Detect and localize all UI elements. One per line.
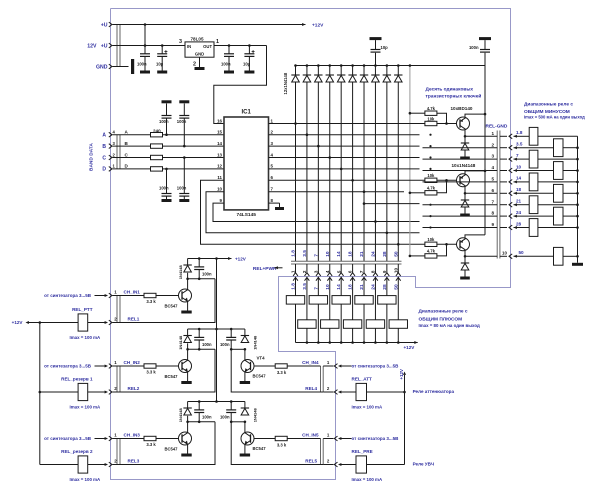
svg-text:4: 4: [325, 270, 330, 273]
svg-text:REL5: REL5: [305, 458, 317, 463]
svg-text:10: 10: [217, 187, 222, 192]
svg-text:14: 14: [217, 141, 222, 146]
svg-text:REL_PRE: REL_PRE: [352, 449, 373, 454]
svg-text:REL_ATT: REL_ATT: [352, 377, 373, 382]
svg-text:REL_PTT: REL_PTT: [72, 307, 93, 312]
svg-text:100n: 100n: [137, 62, 147, 67]
svg-text:12x1N4148: 12x1N4148: [283, 72, 288, 94]
svg-text:10xBD140: 10xBD140: [451, 106, 473, 111]
svg-text:100n: 100n: [469, 45, 479, 50]
svg-text:3: 3: [179, 39, 182, 45]
svg-text:240: 240: [153, 128, 161, 133]
svg-text:78L05: 78L05: [191, 37, 204, 42]
svg-text:13: 13: [217, 152, 222, 157]
svg-text:от синтезатора 3...5В: от синтезатора 3...5В: [352, 436, 400, 441]
svg-text:+U: +U: [101, 43, 108, 49]
svg-text:100n: 100n: [177, 186, 187, 191]
svg-text:28: 28: [382, 251, 388, 257]
svg-text:10k: 10k: [427, 116, 435, 121]
svg-text:18: 18: [348, 251, 354, 257]
svg-text:10: 10: [502, 251, 507, 256]
svg-text:CH_IN4: CH_IN4: [302, 360, 319, 365]
svg-text:1N4148: 1N4148: [253, 335, 258, 350]
svg-text:3.5: 3.5: [302, 250, 308, 257]
svg-text:14: 14: [516, 176, 522, 181]
svg-text:8: 8: [491, 211, 494, 216]
svg-text:15: 15: [217, 130, 222, 135]
svg-text:10k: 10k: [427, 173, 435, 178]
svg-text:Диапазонные реле с: Диапазонные реле с: [419, 309, 468, 315]
svg-text:Десять одинаковых: Десять одинаковых: [426, 87, 474, 93]
svg-text:Реле аттенюатора: Реле аттенюатора: [413, 389, 455, 394]
svg-text:Imax = 100 mA: Imax = 100 mA: [352, 477, 383, 482]
svg-text:7: 7: [491, 199, 494, 204]
svg-text:6: 6: [491, 188, 494, 193]
svg-text:GND: GND: [195, 52, 204, 57]
svg-text:от синтезатора 3...5В: от синтезатора 3...5В: [44, 436, 92, 441]
svg-text:11: 11: [217, 175, 222, 180]
svg-text:14: 14: [336, 251, 342, 257]
svg-text:3.3 k: 3.3 k: [146, 299, 156, 304]
svg-text:3: 3: [313, 270, 318, 273]
svg-text:Imax = 500 мА на один выход: Imax = 500 мА на один выход: [524, 115, 585, 120]
svg-text:74LS145: 74LS145: [236, 212, 256, 218]
svg-text:3.3 k: 3.3 k: [146, 442, 156, 447]
svg-text:5: 5: [336, 270, 341, 273]
svg-text:Imax = 100 mA: Imax = 100 mA: [352, 404, 383, 409]
svg-text:BC547: BC547: [253, 446, 267, 451]
svg-text:10x1N4148: 10x1N4148: [452, 163, 476, 168]
svg-text:7: 7: [516, 153, 519, 158]
svg-text:REL4: REL4: [305, 386, 317, 391]
svg-text:+U: +U: [101, 22, 108, 28]
svg-text:5: 5: [491, 177, 494, 182]
svg-text:7: 7: [359, 270, 364, 273]
svg-text:4.7k: 4.7k: [427, 186, 436, 191]
svg-text:10p: 10p: [381, 45, 389, 50]
svg-text:4: 4: [491, 165, 494, 170]
svg-text:IN: IN: [187, 44, 191, 49]
svg-text:10µ: 10µ: [243, 62, 251, 67]
svg-text:100n: 100n: [177, 119, 187, 124]
svg-text:50: 50: [393, 251, 399, 257]
svg-text:1N4148: 1N4148: [178, 335, 183, 350]
svg-text:10µ: 10µ: [156, 62, 164, 67]
svg-text:100n: 100n: [202, 414, 212, 419]
svg-text:10: 10: [516, 164, 522, 169]
svg-text:1: 1: [491, 131, 494, 136]
svg-text:BAND DATA: BAND DATA: [89, 143, 95, 171]
svg-text:24: 24: [516, 210, 522, 215]
svg-text:1: 1: [291, 270, 296, 273]
svg-text:D: D: [102, 167, 106, 173]
svg-text:CH_IN3: CH_IN3: [124, 433, 141, 438]
svg-text:1N4148: 1N4148: [253, 408, 258, 423]
svg-text:24: 24: [370, 251, 376, 257]
svg-text:+12V: +12V: [399, 369, 404, 379]
svg-text:REL_резерв 1: REL_резерв 1: [61, 377, 93, 382]
svg-text:8: 8: [371, 270, 376, 273]
svg-text:3.5: 3.5: [516, 142, 523, 147]
svg-text:10: 10: [393, 268, 398, 274]
svg-text:Imax = 100 mA: Imax = 100 mA: [70, 335, 101, 340]
svg-text:C: C: [102, 155, 106, 161]
svg-text:3.3 k: 3.3 k: [146, 369, 156, 374]
svg-text:2: 2: [302, 270, 307, 273]
svg-text:Imax = 80 мА на один выход: Imax = 80 мА на один выход: [419, 323, 480, 328]
svg-text:7: 7: [313, 254, 319, 257]
svg-text:ОБЩИМ ПЛЮСОМ: ОБЩИМ ПЛЮСОМ: [419, 317, 463, 323]
svg-text:3.3 k: 3.3 k: [277, 370, 287, 375]
svg-text:100n: 100n: [159, 186, 169, 191]
svg-text:9: 9: [382, 270, 387, 273]
svg-text:GND: GND: [96, 64, 108, 70]
svg-text:1N4148: 1N4148: [178, 265, 183, 280]
svg-text:IC1: IC1: [242, 110, 252, 116]
svg-text:100n: 100n: [220, 342, 230, 347]
svg-text:3.3 k: 3.3 k: [277, 442, 287, 447]
svg-text:12V: 12V: [87, 43, 97, 49]
svg-text:Реле УВЧ: Реле УВЧ: [413, 461, 434, 466]
svg-text:от синтезатора 3...5В: от синтезатора 3...5В: [44, 293, 92, 298]
svg-text:+12V: +12V: [12, 320, 24, 325]
svg-text:BC547: BC547: [164, 374, 178, 379]
svg-text:12: 12: [217, 164, 222, 169]
svg-text:A: A: [102, 133, 106, 139]
svg-text:10: 10: [325, 251, 331, 257]
svg-text:OUT: OUT: [203, 44, 212, 49]
svg-text:REL1: REL1: [128, 316, 140, 321]
svg-text:+12V: +12V: [235, 257, 247, 262]
svg-text:4.7k: 4.7k: [427, 106, 436, 111]
svg-text:CH_IN1: CH_IN1: [124, 290, 141, 295]
svg-text:CH_IN5: CH_IN5: [302, 433, 319, 438]
svg-text:3: 3: [491, 154, 494, 159]
svg-text:Диапазонные реле с: Диапазонные реле с: [524, 102, 573, 108]
svg-text:REL+PWR: REL+PWR: [253, 266, 277, 272]
svg-text:REL-GND: REL-GND: [486, 124, 508, 130]
svg-text:CH_IN2: CH_IN2: [124, 360, 141, 365]
svg-text:100n: 100n: [159, 119, 169, 124]
svg-text:28: 28: [516, 221, 522, 226]
svg-text:от синтезатора 3...5В: от синтезатора 3...5В: [352, 364, 400, 369]
svg-text:Imax = 100 mA: Imax = 100 mA: [70, 477, 101, 482]
svg-text:100n: 100n: [220, 414, 230, 419]
svg-text:4.7k: 4.7k: [427, 249, 436, 254]
svg-text:REL_резерв 2: REL_резерв 2: [61, 449, 93, 454]
svg-text:Imax = 100 mA: Imax = 100 mA: [70, 404, 101, 409]
svg-text:18: 18: [516, 187, 522, 192]
svg-text:2: 2: [491, 142, 494, 147]
svg-text:BC547: BC547: [253, 374, 267, 379]
svg-text:6: 6: [348, 270, 353, 273]
svg-text:21: 21: [359, 251, 365, 257]
svg-text:от синтезатора 3...5В: от синтезатора 3...5В: [44, 364, 92, 369]
svg-text:+12V: +12V: [404, 345, 416, 350]
svg-text:100n: 100n: [221, 62, 231, 67]
svg-text:1N4148: 1N4148: [178, 408, 183, 423]
svg-text:BC547: BC547: [164, 304, 178, 309]
svg-text:9: 9: [491, 222, 494, 227]
svg-text:REL2: REL2: [128, 386, 140, 391]
svg-text:1.8: 1.8: [291, 250, 297, 257]
svg-text:50: 50: [519, 250, 525, 255]
svg-text:+12V: +12V: [312, 23, 324, 29]
svg-text:10k: 10k: [427, 237, 435, 242]
svg-text:2: 2: [193, 62, 196, 68]
svg-text:BC547: BC547: [164, 447, 178, 452]
svg-text:100n: 100n: [202, 342, 212, 347]
svg-text:VT4: VT4: [257, 356, 266, 361]
svg-text:1.8: 1.8: [516, 130, 523, 135]
svg-text:16: 16: [217, 118, 222, 123]
svg-text:REL3: REL3: [128, 458, 140, 463]
svg-text:21: 21: [516, 199, 522, 204]
svg-text:транзисторных ключей: транзисторных ключей: [426, 92, 482, 99]
svg-text:1: 1: [216, 39, 219, 45]
svg-text:100n: 100n: [202, 271, 212, 276]
svg-text:B: B: [102, 144, 106, 150]
